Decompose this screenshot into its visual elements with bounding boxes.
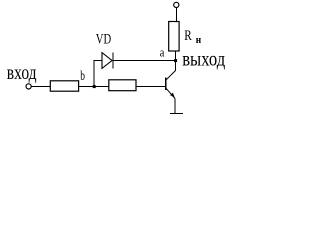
ground bar bbox=[170, 113, 183, 115]
wire diode cathode to node a bbox=[113, 60, 176, 62]
supply terminal circle bbox=[174, 2, 179, 7]
diode VD cathode bar bbox=[112, 53, 114, 69]
input terminal circle bbox=[26, 84, 31, 89]
svg-text:a: a bbox=[160, 45, 165, 60]
transistor base bar bbox=[165, 77, 167, 90]
wire node b up to diode row bbox=[93, 61, 95, 87]
emitter arrowhead bbox=[170, 93, 175, 98]
wire input to R1 bbox=[31, 86, 50, 88]
diode VD triangle bbox=[102, 53, 112, 69]
wire node a up to Rn bbox=[175, 51, 177, 61]
wire to diode anode bbox=[94, 60, 103, 62]
resistor Rн bbox=[169, 22, 179, 52]
node a junction dot bbox=[174, 59, 177, 62]
svg-text:выход: выход bbox=[182, 47, 225, 71]
wire R2 to base bbox=[136, 86, 166, 88]
svg-text:b: b bbox=[80, 69, 85, 84]
transistor collector lead bbox=[166, 61, 175, 80]
wire Rn top to supply terminal bbox=[175, 8, 177, 22]
resistor R1 bbox=[50, 81, 78, 91]
wire emitter to ground bbox=[174, 98, 176, 113]
resistor R2 bbox=[109, 80, 136, 91]
svg-text:вход: вход bbox=[7, 63, 37, 84]
transistor emitter lead bbox=[166, 89, 175, 99]
node b junction dot bbox=[93, 85, 96, 88]
svg-text:VD: VD bbox=[96, 32, 111, 48]
svg-text:н: н bbox=[196, 35, 201, 46]
svg-text:R: R bbox=[184, 28, 192, 44]
wire R1 to node b and on to R2 bbox=[79, 86, 109, 88]
